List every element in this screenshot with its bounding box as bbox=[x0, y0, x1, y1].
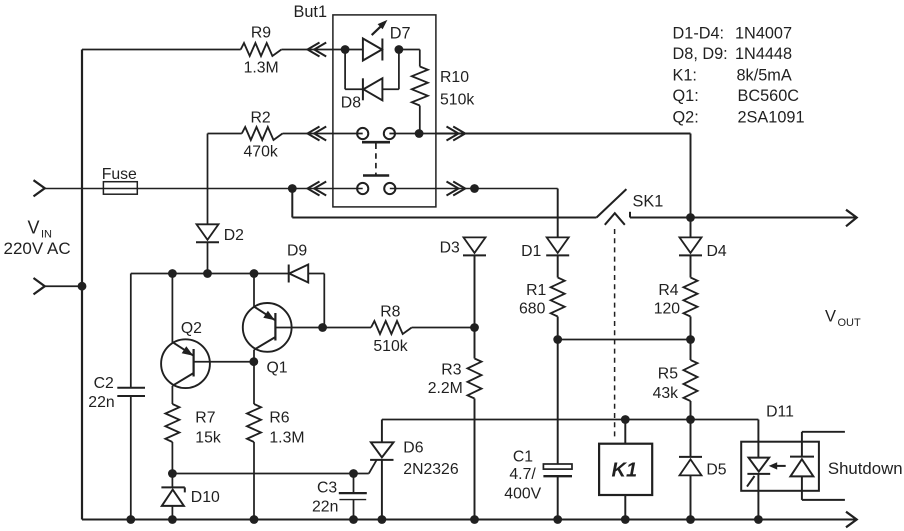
wire R8 to R3 node bbox=[412, 327, 475, 329]
wire D8 branch left leg bbox=[345, 50, 363, 90]
input arrow top phase bbox=[34, 180, 45, 196]
photo-thyristor of D11 bbox=[747, 442, 770, 520]
diode D7 bbox=[363, 25, 411, 61]
connector chevron into But1 middle-left bbox=[308, 127, 327, 141]
node bottom rail at C1 bbox=[553, 515, 562, 524]
contact circle upper-right of But1 bbox=[384, 128, 395, 139]
wire node to D10 bbox=[171, 474, 173, 488]
node bottom rail at D10 bbox=[168, 515, 177, 524]
connector chevron into But1 bottom-left bbox=[308, 182, 327, 196]
svg-text:SK1: SK1 bbox=[633, 193, 664, 211]
diode D10 (zener) bbox=[161, 487, 220, 506]
svg-text:43k: 43k bbox=[653, 385, 679, 402]
diode D8 bbox=[341, 78, 383, 111]
wire input to fuse bbox=[45, 188, 104, 190]
svg-text:D11: D11 bbox=[766, 404, 794, 421]
wire output line bbox=[691, 217, 856, 219]
svg-text:R4: R4 bbox=[658, 282, 678, 299]
wire relay rail bbox=[382, 419, 759, 421]
wire R3 top lead bbox=[474, 328, 476, 359]
node R3 top junction bbox=[470, 323, 479, 332]
node bottom rail at C2 bbox=[126, 515, 135, 524]
svg-text:D2: D2 bbox=[224, 227, 244, 244]
svg-text:R2: R2 bbox=[251, 110, 271, 127]
svg-text:220V AC: 220V AC bbox=[4, 239, 71, 258]
label V_IN bbox=[4, 218, 71, 259]
wire Q1 base to R8 bbox=[323, 327, 371, 329]
node Q1 emitter junction bbox=[250, 269, 259, 278]
contact circle upper-left of But1 bbox=[357, 128, 368, 139]
wire C3 node to D6 gate bbox=[354, 460, 377, 473]
wire D2 vertical top bbox=[207, 134, 209, 225]
wire R1 node down to C1 bbox=[557, 340, 559, 465]
label parts list bbox=[673, 24, 805, 126]
svg-text:OUT: OUT bbox=[838, 317, 862, 329]
resistor R5 bbox=[653, 360, 698, 402]
svg-text:D6: D6 bbox=[403, 440, 423, 457]
LED of D11 (shutdown input) bbox=[790, 432, 814, 500]
transistor Q1 bbox=[243, 274, 323, 377]
svg-text:R10: R10 bbox=[440, 69, 469, 86]
node bottom rail at D11 bbox=[754, 515, 763, 524]
wire fuse to branch node bbox=[137, 188, 292, 190]
node Q2 base / Q1 collector junction bbox=[249, 357, 258, 366]
svg-text:2SA1091: 2SA1091 bbox=[738, 109, 805, 127]
svg-text:R6: R6 bbox=[269, 410, 289, 427]
diode D2 bbox=[196, 224, 244, 244]
wire R2 to contact bbox=[283, 133, 363, 135]
node But1 D7-D8 left junction bbox=[341, 45, 350, 54]
svg-text:C2: C2 bbox=[94, 375, 114, 392]
wire R5 node to D5 bbox=[690, 420, 692, 457]
svg-text:D5: D5 bbox=[706, 462, 726, 479]
svg-text:D9: D9 bbox=[287, 243, 307, 260]
resistor R4 bbox=[654, 278, 698, 318]
node C3 junction bbox=[349, 469, 358, 478]
svg-text:15k: 15k bbox=[195, 430, 221, 447]
wire branch node to contact bbox=[292, 188, 362, 190]
wire C2 to rail bbox=[130, 396, 132, 520]
svg-text:8k/5mA: 8k/5mA bbox=[737, 67, 792, 85]
capacitor C2 bbox=[88, 375, 145, 411]
node R10 bottom junction bbox=[415, 129, 424, 138]
svg-text:22n: 22n bbox=[312, 499, 338, 516]
contact bridge bar upper bbox=[362, 141, 390, 144]
node K1 top junction bbox=[621, 415, 630, 424]
svg-text:510k: 510k bbox=[373, 338, 407, 355]
wire Q2 base node to R6 bbox=[253, 362, 255, 404]
node SK1 output junction bbox=[686, 213, 695, 222]
arrow on D7 (lamp indicator) bbox=[372, 20, 388, 35]
svg-text:C1: C1 bbox=[513, 449, 533, 466]
svg-text:470k: 470k bbox=[244, 144, 278, 161]
connector chevron out of But1 middle-right bbox=[447, 127, 466, 141]
svg-text:D1-D4:: D1-D4: bbox=[673, 24, 725, 42]
wire R3 bottom to rail bbox=[474, 399, 476, 520]
diode D3 bbox=[440, 237, 486, 256]
box But1 pushbutton outline bbox=[294, 3, 436, 207]
wire D2 to base rail bbox=[207, 242, 209, 273]
node bottom rail at C3 bbox=[349, 515, 358, 524]
wire R4 to node bbox=[690, 317, 692, 340]
svg-text:2.2M: 2.2M bbox=[428, 380, 463, 397]
svg-text:1N4448: 1N4448 bbox=[735, 45, 792, 63]
switch SK1 blade bbox=[597, 189, 664, 217]
input arrow bottom phase bbox=[34, 278, 45, 294]
wire R6 to rail bbox=[253, 442, 255, 520]
svg-text:2N2326: 2N2326 bbox=[403, 461, 459, 478]
svg-text:22n: 22n bbox=[88, 394, 114, 411]
svg-text:K1:: K1: bbox=[673, 67, 697, 85]
svg-text:Q1: Q1 bbox=[267, 360, 288, 377]
wire contact row to D3 node bbox=[390, 188, 475, 190]
node bottom rail at K1 bbox=[621, 515, 630, 524]
node R4 bottom junction bbox=[686, 335, 695, 344]
svg-text:But1: But1 bbox=[294, 3, 328, 21]
wire R2 row down to SK1 output node bbox=[690, 134, 692, 218]
resistor R1 bbox=[519, 278, 565, 318]
svg-text:V: V bbox=[28, 218, 40, 238]
wire node to D4 bbox=[690, 218, 692, 238]
contact bridge bar lower bbox=[363, 174, 389, 177]
svg-text:BC560C: BC560C bbox=[738, 87, 800, 105]
dashed linkage SK1 to K1 bbox=[614, 229, 616, 439]
diode D1 bbox=[521, 237, 569, 260]
node bottom rail at D5 bbox=[686, 515, 695, 524]
wire D9 to Q1 base node bbox=[308, 274, 324, 328]
svg-text:Q1:: Q1: bbox=[673, 87, 699, 105]
wire input2 to bus bbox=[45, 285, 82, 287]
wire left vertical bus from R9 row to bottom rail bbox=[81, 50, 83, 520]
node R5 bottom junction bbox=[686, 415, 695, 424]
svg-text:R8: R8 bbox=[380, 304, 400, 321]
wire D1 to R1 bbox=[557, 255, 559, 277]
svg-text:Q2:: Q2: bbox=[673, 109, 699, 127]
resistor R8 bbox=[371, 304, 412, 356]
svg-text:R9: R9 bbox=[251, 25, 271, 42]
wire SK1 feed bbox=[292, 189, 596, 218]
wire relay rail corner down to D11 bbox=[757, 420, 759, 442]
capacitor C3 bbox=[312, 474, 367, 520]
node bottom rail at R3 bbox=[470, 515, 479, 524]
node SK1 branch junction bbox=[288, 184, 297, 193]
svg-text:K1: K1 bbox=[612, 460, 638, 482]
wire to D7 bbox=[345, 49, 363, 51]
svg-text:D1: D1 bbox=[521, 243, 541, 260]
svg-text:D3: D3 bbox=[440, 240, 460, 257]
svg-text:1.3M: 1.3M bbox=[244, 60, 279, 77]
svg-text:R1: R1 bbox=[526, 282, 546, 299]
resistor R3 bbox=[428, 359, 482, 399]
node input2 junction bbox=[78, 282, 87, 291]
node D3 top junction bbox=[470, 184, 479, 193]
node R1 bottom junction bbox=[553, 335, 562, 344]
node bottom rail at R6 bbox=[250, 515, 259, 524]
wire R7 to node bbox=[171, 442, 173, 474]
bottom rail arrowhead bbox=[846, 512, 857, 528]
diode D4 bbox=[679, 237, 727, 260]
pushbutton shaft dashed bbox=[375, 144, 377, 175]
connector chevron into But1 top-left bbox=[308, 43, 327, 57]
svg-text:V: V bbox=[825, 308, 836, 326]
wire bottom rail bbox=[82, 519, 855, 521]
svg-text:R5: R5 bbox=[658, 366, 678, 383]
transistor Q2 bbox=[161, 274, 254, 405]
wire R2 row left corner bbox=[208, 133, 242, 135]
svg-text:4.7/: 4.7/ bbox=[509, 466, 536, 483]
resistor R9 bbox=[241, 25, 282, 77]
svg-text:D10: D10 bbox=[191, 489, 220, 506]
resistor R6 bbox=[247, 404, 305, 447]
wire D3 to R8 node bbox=[474, 255, 476, 327]
resistor R2 bbox=[242, 110, 283, 161]
relay K1 bbox=[599, 420, 652, 520]
svg-text:Q2: Q2 bbox=[181, 320, 202, 337]
wire R9 to But1 box bbox=[281, 49, 345, 51]
wire R1 to node bbox=[557, 317, 559, 340]
wire gate rail bbox=[172, 473, 353, 475]
node D7 right junction bbox=[395, 45, 404, 54]
node Q2 emitter junction bbox=[168, 269, 177, 278]
node bottom rail at D6 bbox=[378, 515, 387, 524]
wire R4 node to R5 bbox=[690, 340, 692, 361]
node Q1 base junction bbox=[318, 323, 327, 332]
svg-text:C3: C3 bbox=[317, 480, 337, 497]
wire R10 bottom to contact row bbox=[419, 106, 421, 134]
wire emitter rail corner to C2 bbox=[130, 274, 132, 388]
wire D5 to rail bbox=[690, 475, 692, 519]
node D2 bottom junction bbox=[203, 269, 212, 278]
connector chevron out of But1 bottom-right bbox=[447, 182, 466, 196]
svg-text:400V: 400V bbox=[504, 486, 541, 503]
svg-text:1N4007: 1N4007 bbox=[735, 24, 792, 42]
svg-text:Shutdown: Shutdown bbox=[828, 459, 903, 478]
svg-text:D7: D7 bbox=[390, 25, 411, 43]
svg-text:1.3M: 1.3M bbox=[269, 430, 304, 447]
wire D4 to R4 bbox=[690, 255, 692, 277]
wire contact to R10 node bbox=[389, 133, 436, 135]
svg-text:D4: D4 bbox=[707, 243, 727, 260]
arrow under SK1 blade bbox=[605, 213, 625, 225]
wire shutdown terminals bbox=[802, 432, 903, 500]
fuse body bbox=[102, 166, 138, 194]
thyristor D6 2N2326 bbox=[370, 420, 459, 520]
svg-text:D8: D8 bbox=[341, 95, 361, 112]
wire D8 branch right leg bbox=[382, 50, 399, 90]
resistor R10 bbox=[412, 67, 475, 109]
svg-text:R3: R3 bbox=[441, 362, 461, 379]
svg-text:R7: R7 bbox=[195, 410, 215, 427]
output arrowhead bbox=[846, 210, 857, 227]
svg-text:680: 680 bbox=[519, 301, 546, 318]
box D11 outline bbox=[741, 404, 819, 491]
wire D10 to rail bbox=[171, 506, 173, 520]
diode D9 bbox=[287, 243, 308, 283]
wire R9 row horizontal bbox=[82, 49, 241, 51]
wire SK1 to output node bbox=[630, 217, 691, 219]
node R7 bottom junction bbox=[168, 469, 177, 478]
svg-text:D8, D9:: D8, D9: bbox=[673, 45, 728, 63]
resistor R7 bbox=[165, 404, 220, 447]
wire emitter rail bbox=[131, 273, 289, 275]
svg-text:120: 120 bbox=[654, 301, 681, 318]
contact circle lower-right of But1 bbox=[384, 183, 395, 194]
arrow inside D11 bbox=[769, 462, 786, 469]
wire C1 to rail bbox=[557, 476, 559, 519]
wire link R1-R4 nodes bbox=[558, 339, 691, 341]
wire R2 row from box to right corner bbox=[436, 133, 691, 135]
svg-text:Fuse: Fuse bbox=[102, 166, 137, 183]
wire R5 to node bbox=[690, 401, 692, 420]
capacitor C1 bbox=[504, 449, 572, 503]
diode D5 (zener) bbox=[679, 457, 727, 479]
wire D7 node to R10 top corner bbox=[399, 50, 420, 67]
contact circle lower-left of But1 bbox=[357, 183, 368, 194]
wire D3 node to D1 corner bbox=[475, 189, 558, 238]
svg-text:510k: 510k bbox=[440, 92, 474, 109]
label V_OUT bbox=[825, 308, 861, 330]
